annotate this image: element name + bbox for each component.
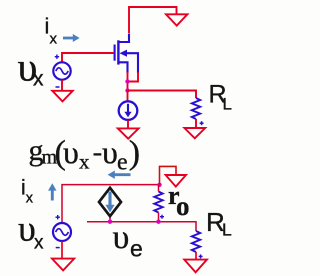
gate plate xyxy=(114,45,116,61)
node: source/body junction xyxy=(125,79,129,83)
dependent source gm (diamond) xyxy=(109,216,111,222)
minus mark xyxy=(56,247,60,249)
svg-text:L: L xyxy=(222,220,232,240)
drain stub xyxy=(118,34,129,43)
svg-text:x: x xyxy=(33,68,44,91)
wire bottom rail xyxy=(87,222,196,231)
ground (RL bottom) xyxy=(184,260,207,273)
svg-text:x: x xyxy=(50,31,58,48)
node diamond bottom xyxy=(108,220,112,224)
plus mark at RL bottom xyxy=(199,254,203,258)
plus mark xyxy=(55,55,59,59)
resistor RL (bottom) xyxy=(192,231,200,252)
wire vx to ground (bottom) xyxy=(61,241,63,258)
resistor ro xyxy=(158,185,160,192)
ground (top supply) xyxy=(166,14,187,25)
body stub xyxy=(124,53,138,73)
wire gate: from vx source top to MOSFET gate xyxy=(62,53,114,63)
current source I1 xyxy=(119,101,138,120)
wire output node down to current source xyxy=(127,91,129,102)
ground (current source) xyxy=(118,128,139,138)
channel plate xyxy=(117,40,119,64)
svg-text:x: x xyxy=(34,233,44,254)
wire RL to ground xyxy=(195,119,197,127)
source stub xyxy=(118,62,127,73)
svg-text:): ) xyxy=(129,135,140,172)
source Vx (bottom) xyxy=(53,223,71,241)
svg-text:x: x xyxy=(79,150,90,174)
svg-text:x: x xyxy=(26,191,34,207)
transistor M1 (NMOS, blue) xyxy=(115,34,138,74)
arrow ix (right, steel blue) xyxy=(63,37,75,40)
arrow (left, steel blue) under label xyxy=(114,173,131,176)
minus mark xyxy=(56,86,60,88)
plus mark xyxy=(56,215,60,219)
wire source lead down + body join xyxy=(127,72,129,91)
ground (RL top circuit) xyxy=(184,128,205,138)
node ro bottom xyxy=(156,220,160,224)
resistor RL (top) xyxy=(192,98,200,119)
source Vx (top) xyxy=(53,62,70,79)
wire output node to RL xyxy=(128,91,197,99)
plus mark at ro bottom xyxy=(160,215,164,219)
wire to top ground xyxy=(160,166,177,184)
ground (vx top) xyxy=(52,91,72,102)
wire drain to top supply ground xyxy=(129,7,177,33)
plus mark at RL bottom xyxy=(200,121,204,125)
ground (vx bottom) xyxy=(52,259,74,271)
svg-text:o: o xyxy=(176,191,190,221)
node: output node junction xyxy=(125,88,129,92)
arrow ix (up, steel blue) xyxy=(51,190,54,201)
svg-text:υ: υ xyxy=(63,134,79,170)
wire current source to ground xyxy=(127,120,129,128)
svg-text:e: e xyxy=(117,150,128,176)
wire top rail xyxy=(62,185,160,223)
svg-text:υ: υ xyxy=(102,134,118,170)
body arrowhead pointing left xyxy=(120,50,128,57)
svg-text:e: e xyxy=(130,236,143,262)
wire vx to ground xyxy=(61,80,63,91)
svg-text:υ: υ xyxy=(113,219,130,256)
ground (bottom circuit top) xyxy=(166,175,186,187)
node top rail / ro xyxy=(157,183,161,187)
svg-text:L: L xyxy=(223,95,232,114)
